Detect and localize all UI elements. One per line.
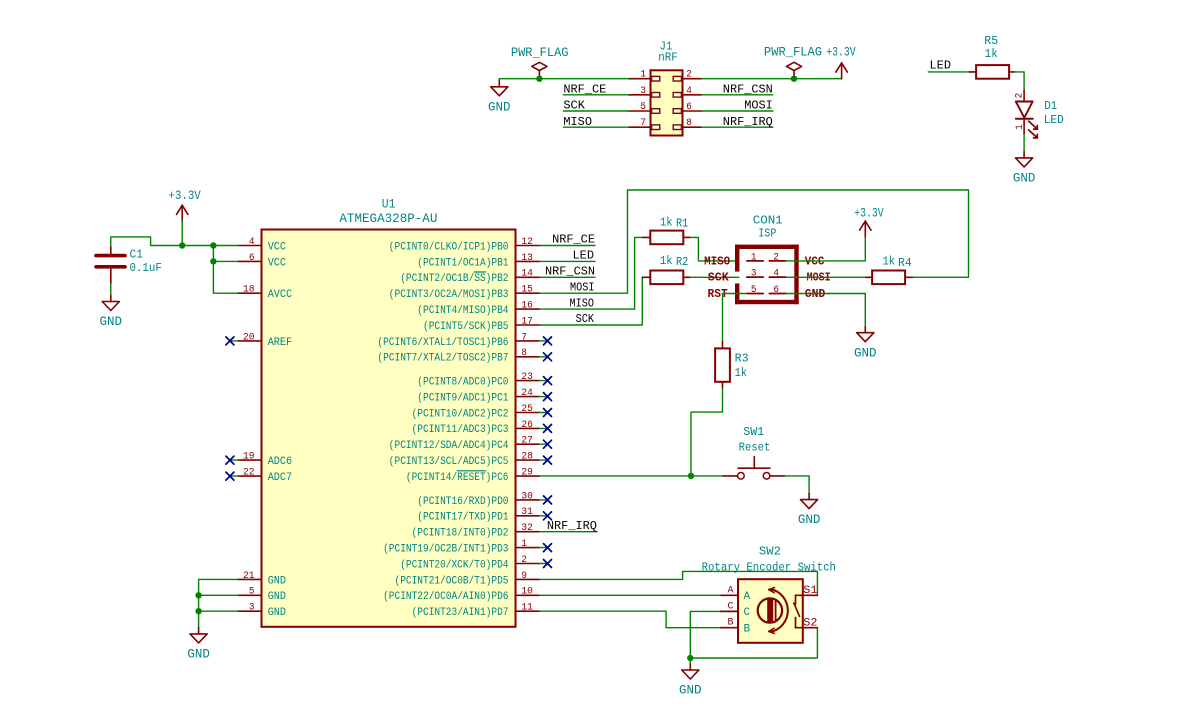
wire R2 to CON1 pin 3 — [690, 276, 747, 278]
svg-text:(PCINT23/AIN1)PD7: (PCINT23/AIN1)PD7 — [412, 607, 509, 619]
SW2 pin S1 — [803, 585, 818, 597]
svg-text:GND: GND — [100, 315, 123, 329]
svg-text:R1: R1 — [676, 216, 688, 230]
wire net NRF_IRQ from PD2 — [540, 531, 598, 533]
svg-text:VCC: VCC — [268, 241, 287, 253]
label LED (net, top right) — [930, 58, 952, 72]
svg-text:(PCINT20/XCK/T0)PD4: (PCINT20/XCK/T0)PD4 — [400, 559, 508, 571]
svg-text:1: 1 — [1014, 124, 1025, 130]
label MISO (J1) — [563, 115, 592, 129]
CON1 pin name GND — [805, 288, 826, 301]
svg-text:(PCINT2/OC1B/SS)PB2: (PCINT2/OC1B/SS)PB2 — [400, 273, 508, 285]
resistor R3 — [715, 342, 730, 388]
svg-text:1k: 1k — [660, 254, 673, 268]
svg-text:GND: GND — [488, 100, 511, 114]
wire net MISO to J1 pin 7 — [563, 126, 628, 128]
wire R3 to reset net — [691, 388, 723, 476]
svg-text:C: C — [744, 607, 751, 619]
resistor R5 — [969, 65, 1014, 79]
connector J1 body (nRF) — [651, 70, 683, 135]
svg-text:(PCINT0/CLKO/ICP1)PB0: (PCINT0/CLKO/ICP1)PB0 — [389, 241, 509, 253]
svg-text:R4: R4 — [898, 256, 912, 270]
svg-text:LED: LED — [1044, 113, 1064, 127]
label MOSI (J1) — [744, 99, 773, 113]
svg-text:24: 24 — [521, 387, 533, 398]
svg-text:+3.3V: +3.3V — [168, 188, 201, 203]
svg-text:6: 6 — [686, 101, 692, 112]
wire SCK from PB5 to R2 — [540, 277, 643, 325]
svg-text:2: 2 — [1014, 93, 1025, 99]
svg-text:3: 3 — [249, 602, 255, 613]
wire C1 to GND — [110, 284, 112, 296]
overbar on SS of PB2 — [474, 271, 485, 273]
svg-text:Reset: Reset — [739, 440, 771, 454]
svg-text:GND: GND — [798, 513, 821, 527]
ground GND under SW2 — [679, 658, 702, 698]
U1 value ATMEGA328P-AU — [339, 211, 437, 226]
svg-text:32: 32 — [521, 522, 533, 533]
svg-text:25: 25 — [521, 403, 533, 414]
svg-text:5: 5 — [751, 284, 757, 295]
svg-text:1: 1 — [751, 251, 757, 262]
R1 value 1k — [660, 215, 673, 229]
svg-text:MOSI: MOSI — [570, 280, 595, 294]
svg-text:GND: GND — [268, 591, 286, 603]
wire to U1 pin 6 VCC — [213, 246, 238, 262]
svg-text:0.1uF: 0.1uF — [130, 261, 162, 275]
wire U1 PD6 to SW2 A — [540, 594, 721, 596]
svg-text:AREF: AREF — [268, 337, 292, 349]
svg-text:(PCINT5/SCK)PB5: (PCINT5/SCK)PB5 — [423, 321, 509, 333]
svg-text:R5: R5 — [984, 34, 998, 48]
svg-text:2: 2 — [686, 69, 692, 80]
svg-text:3: 3 — [751, 268, 757, 279]
SW2 reference — [759, 545, 781, 559]
SW2 value Rotary Encoder Switch — [702, 561, 836, 575]
wire J1 pin 2 to +3.3V — [702, 78, 842, 80]
R5 value 1k — [985, 47, 998, 61]
svg-text:VCC: VCC — [805, 256, 825, 269]
svg-text:RST: RST — [708, 288, 728, 301]
J1 right pins 2,4,6,8 — [673, 69, 702, 130]
ground GND under C1 — [100, 295, 123, 329]
switch SW2 body (rotary encoder) — [738, 579, 803, 643]
SW2 pin C — [721, 602, 751, 619]
svg-text:B: B — [744, 623, 751, 635]
junction VCC pin4/pin6 branch — [210, 242, 216, 248]
svg-text:(PCINT6/XTAL1/TOSC1)PB6: (PCINT6/XTAL1/TOSC1)PB6 — [377, 337, 508, 349]
SW2 rotor circle — [758, 598, 782, 622]
connector J1 reference J1 — [660, 39, 673, 53]
R2 reference — [676, 255, 688, 269]
junction at PWR_FLAG left — [536, 76, 542, 82]
svg-text:nRF: nRF — [658, 51, 678, 65]
label NRF_CE — [563, 82, 606, 96]
label SCK (U1) — [576, 312, 595, 326]
svg-text:8: 8 — [521, 347, 527, 358]
svg-text:ISP: ISP — [758, 227, 776, 241]
svg-text:SW2: SW2 — [759, 545, 781, 559]
svg-text:LED: LED — [573, 249, 595, 263]
SW2 pin A — [721, 585, 751, 602]
svg-text:U1: U1 — [382, 197, 396, 212]
wire net NRF_CSN from PB2 — [540, 276, 596, 278]
svg-text:28: 28 — [521, 451, 533, 462]
D1 light arrow 2 — [1029, 130, 1038, 138]
wire GND to J1 pin 1 — [499, 78, 628, 80]
svg-text:30: 30 — [521, 490, 533, 501]
ground GND under D1 — [1013, 152, 1036, 186]
svg-text:4: 4 — [249, 236, 255, 247]
svg-text:SW1: SW1 — [743, 425, 764, 439]
D1 reference — [1044, 99, 1057, 113]
svg-text:+3.3V: +3.3V — [854, 206, 884, 221]
svg-text:26: 26 — [521, 419, 533, 430]
svg-text:MISO: MISO — [563, 115, 592, 129]
label NRF_IRQ (J1) — [723, 115, 773, 129]
svg-text:ADC7: ADC7 — [268, 472, 292, 484]
SW2 rotation arc — [769, 588, 788, 634]
wire net LED from PB1 — [540, 260, 596, 262]
CON1 pin name SCK — [708, 272, 729, 285]
svg-text:NRF_IRQ: NRF_IRQ — [547, 519, 597, 533]
svg-text:1k: 1k — [735, 366, 747, 380]
wire LED net to R5 — [928, 71, 969, 73]
R5 reference — [984, 34, 998, 48]
R2 value 1k — [660, 254, 673, 268]
svg-text:3: 3 — [640, 85, 646, 96]
svg-text:12: 12 — [521, 236, 533, 247]
label SCK (J1) — [563, 99, 585, 113]
svg-text:11: 11 — [521, 602, 533, 613]
diode D1 (LED) — [1016, 102, 1033, 119]
diode D1 pin 2 — [1014, 90, 1025, 101]
svg-text:R2: R2 — [676, 255, 688, 269]
svg-text:A: A — [728, 585, 734, 596]
svg-text:+3.3V: +3.3V — [826, 45, 856, 60]
CON1 pin name VCC — [805, 256, 825, 269]
svg-text:(PCINT4/MISO)PB4: (PCINT4/MISO)PB4 — [417, 305, 508, 317]
svg-text:NRF_IRQ: NRF_IRQ — [723, 115, 773, 129]
wire MOSI from PB3 to R4 — [540, 190, 969, 293]
svg-text:(PCINT22/OC0A/AIN0)PD6: (PCINT22/OC0A/AIN0)PD6 — [383, 591, 508, 603]
U1 reference — [382, 197, 396, 212]
CON1 value ISP — [758, 227, 776, 241]
wire MISO from PB4 to R1 — [540, 237, 643, 309]
ground GND under CON1 — [854, 327, 877, 361]
svg-text:21: 21 — [243, 570, 255, 581]
U1 left no-connect flags — [226, 337, 238, 480]
wire R1 to CON1 pin 1 — [690, 237, 747, 261]
wire net NRF_CSN from J1 pin 4 — [702, 94, 773, 96]
wire +3.3V rail to U1 VCC pins — [111, 237, 238, 247]
svg-text:C1: C1 — [130, 248, 143, 262]
svg-text:23: 23 — [521, 371, 533, 382]
wire U1 PD7 to SW2 B — [540, 611, 721, 628]
svg-text:GND: GND — [1013, 172, 1036, 186]
svg-text:7: 7 — [640, 117, 646, 128]
wire CON1 pin 6 GND down — [786, 294, 865, 327]
wire net NRF_CE from PB0 — [540, 245, 596, 247]
connector CON1 body (ISP) — [735, 245, 799, 305]
R4 reference — [898, 256, 912, 270]
IC U1 body — [262, 230, 516, 627]
R3 value 1k — [735, 366, 747, 380]
junction reset net — [688, 473, 694, 479]
svg-text:MISO: MISO — [570, 296, 595, 310]
wire net MOSI from J1 pin 6 — [702, 110, 773, 112]
svg-text:GND: GND — [805, 288, 826, 301]
svg-text:10: 10 — [521, 586, 533, 597]
svg-text:CON1: CON1 — [753, 213, 783, 227]
SW2 internal switch contact — [794, 595, 803, 627]
svg-text:Rotary Encoder Switch: Rotary Encoder Switch — [702, 561, 836, 575]
svg-text:S2: S2 — [803, 617, 817, 629]
svg-text:(PCINT14/RESET)PC6: (PCINT14/RESET)PC6 — [406, 472, 509, 484]
svg-text:GND: GND — [268, 607, 286, 619]
wire U1 PD5 to SW2 S1 — [540, 571, 818, 595]
CON1 reference — [753, 213, 783, 227]
svg-text:22: 22 — [243, 466, 255, 477]
svg-text:19: 19 — [243, 451, 255, 462]
U1 right no-connect flags — [540, 337, 552, 568]
svg-text:6: 6 — [773, 284, 779, 295]
svg-text:8: 8 — [686, 117, 692, 128]
wire SW2 C to GND — [690, 611, 721, 658]
svg-text:(PCINT3/OC2A/MOSI)PB3: (PCINT3/OC2A/MOSI)PB3 — [389, 289, 509, 301]
svg-text:GND: GND — [679, 684, 702, 698]
J1 left pins 1,3,5,7 — [629, 69, 660, 130]
wire U1 GND pins bus — [199, 579, 238, 627]
SW1 reference — [743, 425, 764, 439]
D1 light arrow 1 — [1029, 121, 1038, 129]
svg-text:14: 14 — [521, 268, 533, 279]
switch SW1 (Reset) — [723, 457, 785, 479]
label LED (U1) — [573, 249, 595, 263]
junction GND pin3 — [195, 608, 201, 614]
junction at PWR_FLAG right — [791, 76, 797, 82]
svg-text:MOSI: MOSI — [744, 99, 773, 113]
wire net NRF_IRQ from J1 pin 8 — [702, 126, 773, 128]
svg-text:(PCINT19/OC2B/INT1)PD3: (PCINT19/OC2B/INT1)PD3 — [383, 544, 508, 556]
SW1 value Reset — [739, 440, 771, 454]
svg-text:GND: GND — [187, 648, 210, 662]
svg-text:(PCINT12/SDA/ADC4)PC4: (PCINT12/SDA/ADC4)PC4 — [389, 440, 509, 452]
svg-text:MISO: MISO — [704, 256, 730, 269]
svg-text:S1: S1 — [803, 585, 818, 597]
svg-text:(PCINT1/OC1A)PB1: (PCINT1/OC1A)PB1 — [417, 257, 508, 269]
svg-text:(PCINT13/SCL/ADC5)PC5: (PCINT13/SCL/ADC5)PC5 — [389, 456, 509, 468]
wire CON1 pin 4 MOSI to R4 — [786, 276, 866, 278]
junction +3.3V at rail — [179, 242, 185, 248]
svg-text:SCK: SCK — [708, 272, 729, 285]
label NRF_IRQ (U1) — [547, 519, 597, 533]
svg-text:(PCINT9/ADC1)PC1: (PCINT9/ADC1)PC1 — [417, 392, 508, 404]
junction at pin 6 row — [210, 258, 216, 264]
svg-text:B: B — [728, 617, 734, 628]
power +3.3V at J1 — [826, 45, 856, 79]
wire R5 to D1 — [1015, 72, 1025, 90]
power flag PWR_FLAG (left) — [511, 45, 569, 79]
svg-text:(PCINT10/ADC2)PC2: (PCINT10/ADC2)PC2 — [412, 408, 509, 420]
wire U1 pin 5 GND — [199, 594, 238, 596]
svg-text:2: 2 — [521, 554, 527, 565]
svg-text:1: 1 — [640, 69, 646, 80]
svg-text:18: 18 — [243, 284, 255, 295]
svg-text:A: A — [744, 591, 751, 603]
svg-text:MOSI: MOSI — [807, 272, 831, 285]
svg-text:NRF_CSN: NRF_CSN — [545, 265, 595, 279]
svg-text:27: 27 — [521, 435, 533, 446]
svg-text:5: 5 — [249, 586, 255, 597]
svg-text:SCK: SCK — [576, 312, 595, 326]
wire SW2 S2 to GND — [690, 628, 817, 658]
svg-text:ADC6: ADC6 — [268, 456, 292, 468]
svg-text:SCK: SCK — [563, 99, 585, 113]
svg-text:20: 20 — [243, 331, 255, 342]
resistor R4 — [866, 271, 912, 285]
svg-text:GND: GND — [268, 575, 286, 587]
SW2 pin S2 — [803, 617, 818, 629]
wire net NRF_CE to J1 pin 3 — [563, 94, 628, 96]
ground GND under U1 — [187, 628, 210, 662]
wire U1 pin 3 GND — [199, 610, 238, 612]
power +3.3V above C1 — [168, 188, 201, 246]
wire CON1 pin 5 RST to R3 — [723, 294, 747, 342]
wire U1 PC6 to SW1 — [540, 475, 723, 477]
svg-text:9: 9 — [521, 570, 527, 581]
wire SW1 to GND — [785, 476, 809, 494]
svg-text:NRF_CE: NRF_CE — [552, 233, 595, 247]
svg-text:C: C — [728, 602, 734, 613]
svg-text:1k: 1k — [660, 215, 673, 229]
capacitor C1 — [96, 247, 125, 284]
svg-text:1k: 1k — [883, 255, 896, 269]
resistor R2 — [642, 271, 690, 285]
R3 reference — [735, 352, 749, 366]
connector J1 value nRF — [658, 51, 678, 65]
svg-text:1: 1 — [521, 538, 527, 549]
wire CON1 pin 2 VCC to +3.3V — [786, 237, 865, 261]
svg-text:(PCINT16/RXD)PD0: (PCINT16/RXD)PD0 — [417, 496, 508, 508]
svg-text:7: 7 — [521, 331, 527, 342]
svg-text:29: 29 — [521, 466, 533, 477]
svg-text:(PCINT17/TXD)PD1: (PCINT17/TXD)PD1 — [417, 512, 508, 524]
wire D1 to GND — [1023, 134, 1025, 152]
svg-text:NRF_CSN: NRF_CSN — [723, 82, 773, 96]
svg-text:2: 2 — [773, 251, 779, 262]
C1 reference — [130, 248, 143, 262]
wire net SCK to J1 pin 5 — [563, 110, 628, 112]
svg-text:(PCINT8/ADC0)PC0: (PCINT8/ADC0)PC0 — [417, 377, 508, 389]
svg-text:(PCINT7/XTAL2/TOSC2)PB7: (PCINT7/XTAL2/TOSC2)PB7 — [377, 353, 508, 365]
label MISO (U1) — [570, 296, 595, 310]
svg-text:NRF_CE: NRF_CE — [563, 82, 606, 96]
svg-text:31: 31 — [521, 506, 533, 517]
junction SW2 ground — [687, 655, 693, 661]
CON1 pin name MOSI — [807, 272, 831, 285]
svg-text:(PCINT11/ADC3)PC3: (PCINT11/ADC3)PC3 — [412, 424, 509, 436]
svg-text:LED: LED — [930, 58, 952, 72]
label NRF_CE (U1) — [552, 233, 595, 247]
ground GND under SW1 — [798, 493, 821, 527]
svg-text:6: 6 — [249, 252, 255, 263]
CON1 pins 1-6 — [747, 251, 786, 295]
svg-text:4: 4 — [773, 268, 779, 279]
wire to U1 pin 18 AVCC — [213, 261, 238, 293]
svg-text:PWR_FLAG: PWR_FLAG — [511, 45, 569, 60]
svg-text:4: 4 — [686, 85, 692, 96]
svg-text:15: 15 — [521, 284, 533, 295]
D1 value LED — [1044, 113, 1064, 127]
CON1 pin name RST — [708, 288, 728, 301]
R1 reference — [676, 216, 688, 230]
svg-text:5: 5 — [640, 101, 646, 112]
svg-text:(PCINT21/OC0B/T1)PD5: (PCINT21/OC0B/T1)PD5 — [395, 575, 509, 587]
svg-text:AVCC: AVCC — [268, 289, 293, 301]
label NRF_CSN (U1) — [545, 265, 595, 279]
C1 value 0.1uF — [130, 261, 162, 275]
ground GND under J1 pin 1 — [488, 79, 511, 115]
CON1 pin name MISO — [704, 256, 730, 269]
label MOSI (U1) — [570, 280, 595, 294]
label NRF_CSN — [723, 82, 773, 96]
R4 value 1k — [883, 255, 896, 269]
U1 right pins with numbers and names — [377, 236, 539, 619]
svg-text:16: 16 — [521, 300, 533, 311]
svg-text:PWR_FLAG: PWR_FLAG — [764, 45, 822, 60]
U1 left pins with numbers and names — [238, 236, 293, 619]
SW2 pin B — [721, 617, 751, 635]
svg-text:VCC: VCC — [268, 257, 287, 269]
power +3.3V at CON1 — [854, 206, 884, 237]
svg-text:17: 17 — [521, 315, 533, 326]
resistor R1 — [643, 231, 691, 245]
diode D1 pin 1 — [1014, 120, 1025, 134]
svg-text:(PCINT18/INT0)PD2: (PCINT18/INT0)PD2 — [412, 528, 509, 540]
power flag PWR_FLAG (right) — [764, 45, 822, 79]
junction GND pin5 — [195, 592, 201, 598]
svg-text:D1: D1 — [1044, 99, 1057, 113]
svg-text:R3: R3 — [735, 352, 749, 366]
svg-text:1k: 1k — [985, 47, 998, 61]
svg-text:ATMEGA328P-AU: ATMEGA328P-AU — [339, 211, 437, 226]
overbar on RESET of PC6 — [457, 470, 486, 472]
svg-text:13: 13 — [521, 252, 533, 263]
svg-text:GND: GND — [854, 346, 877, 360]
